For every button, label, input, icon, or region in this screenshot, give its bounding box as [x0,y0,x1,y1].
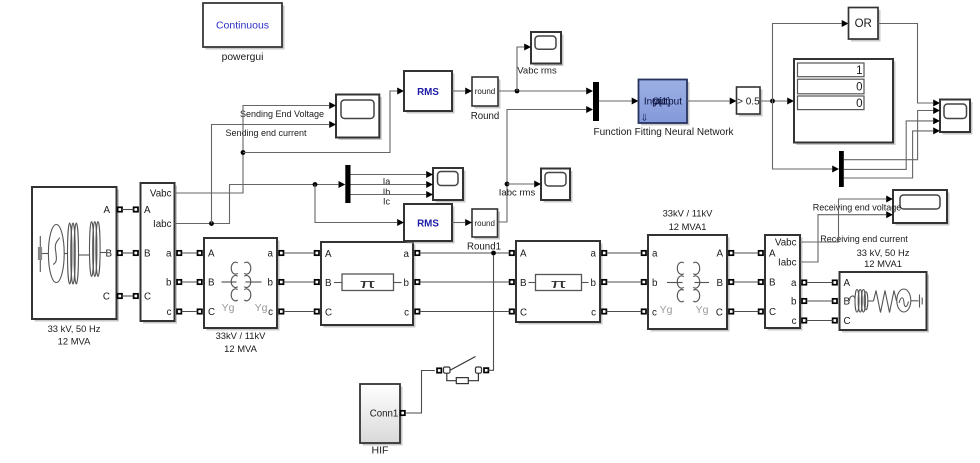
wire breaker to phase A node [488,255,493,370]
svg-text:a: a [268,249,274,260]
RMS block 2 [407,207,455,244]
pi1 inner icon [334,282,342,284]
wire VI2 Iabc to receiving scope [800,215,886,262]
svg-text:33kV / 11kV: 33kV / 11kV [663,208,714,219]
svg-text:0: 0 [856,82,862,94]
svg-text:b: b [166,278,172,289]
svg-text:b: b [268,278,274,289]
svg-text:c: c [167,307,172,318]
wire mux to neural network [599,100,632,102]
VI2 ports [759,251,763,255]
wire source B to VI1 B [122,252,134,254]
three-phase source 33 kV, 50 Hz 12 MVA [35,190,120,322]
RMS block 1 [407,74,455,114]
svg-text:A: A [325,249,332,260]
svg-text:12 MVA: 12 MVA [58,336,91,347]
scope receiving end [896,193,950,226]
svg-text:12 MVA1: 12 MVA1 [669,221,707,232]
wire source C to VI1 C [122,295,134,297]
svg-text:Iabc rms: Iabc rms [499,188,536,199]
transformer 33kV/11kV 12 MVA [207,241,280,331]
wire source A to VI1 A [122,209,134,211]
svg-text:C: C [844,316,851,327]
final scope [943,102,973,135]
svg-text:y{1}: y{1} [653,97,671,108]
wire OR to scope [878,24,933,104]
svg-text:1: 1 [856,65,862,77]
svg-text:B: B [716,278,723,289]
svg-text:a: a [591,249,597,260]
display block [797,62,896,146]
svg-text:a: a [404,249,410,260]
svg-text:B: B [208,278,215,289]
svg-text:> 0.5: > 0.5 [737,97,760,108]
pi1 ports [315,251,319,255]
transformer 33kV/11kV 12 MVA1 [651,238,730,332]
three-phase load 33 kV, 50 Hz 12 MVA1 [842,275,929,333]
wire Round1 to mux and Iabc rms scope [498,110,587,223]
wire Iabc branch to RMS2 [315,185,397,223]
svg-text:Vabc rms: Vabc rms [517,66,557,77]
node Iabc branch 1 [209,221,214,226]
demux Iabc to Ia Ib Ic [345,165,350,203]
svg-text:round: round [475,87,495,96]
svg-text:powergui: powergui [222,52,264,63]
svg-text:RMS: RMS [417,219,439,230]
source ports [118,207,122,211]
svg-text:a: a [652,249,658,260]
svg-text:Iabc: Iabc [153,219,172,230]
svg-text:a: a [791,278,797,289]
svg-text:C: C [103,292,110,303]
transformer2 ports [642,251,646,255]
svg-text:c: c [591,308,596,319]
svg-text:OR: OR [855,18,872,30]
svg-text:A: A [520,249,527,260]
load icon [850,289,923,313]
pi2 ports [510,251,514,255]
svg-text:b: b [791,297,797,308]
wire RMS1 to Round [452,90,465,92]
svg-text:B: B [325,278,332,289]
svg-text:Receiving end voltage: Receiving end voltage [813,203,902,213]
mux rms signals [593,82,599,121]
node Vabc branch [241,150,246,155]
svg-text:A: A [769,249,776,260]
svg-text:B: B [520,278,527,289]
svg-text:C: C [208,307,215,318]
scope Sending End [339,97,382,140]
wires demux to final scope [844,111,933,160]
svg-text:b: b [591,278,597,289]
svg-text:33kV / 11kV: 33kV / 11kV [216,330,267,341]
svg-text:Ic: Ic [383,197,391,207]
svg-text:RMS: RMS [417,87,439,98]
svg-text:Conn1: Conn1 [370,409,399,420]
svg-text:c: c [792,316,797,327]
three-phase V-I measurement 2 [768,238,803,331]
svg-text:round: round [474,219,494,228]
svg-text:c: c [404,308,409,319]
wire Iabc branch to scope1 input 2 [212,125,330,224]
svg-text:C: C [769,307,776,318]
svg-text:0: 0 [856,98,862,110]
demux detection signals [839,151,844,187]
wire Round to mux and Vabc rms scope [498,90,586,92]
svg-text:B: B [769,278,776,289]
wire Iabc1 to demux [175,185,339,224]
fault breaker switch [437,368,441,372]
Round block 1 [475,80,501,109]
svg-text:B: B [105,249,112,260]
scope Iabc rms [544,171,573,203]
three-phase V-I measurement 1 [143,186,177,324]
svg-text:Iabc: Iabc [778,258,797,269]
svg-text:C: C [716,308,723,319]
node HIF tap on phase A [491,251,496,256]
svg-text:b: b [404,278,410,289]
load ports [833,280,837,284]
wire compare out with branches [760,100,787,102]
svg-text:b: b [652,278,658,289]
svg-text:C: C [520,308,527,319]
svg-text:c: c [268,307,273,318]
svg-text:A: A [103,205,110,216]
source icon [38,222,106,285]
pi2 inner icon [529,282,536,284]
three-phase PI section line 1 [324,245,416,328]
svg-text:π: π [550,277,566,291]
svg-text:Round: Round [471,111,500,122]
svg-text:Continuous: Continuous [216,20,269,32]
OR logic block [851,10,881,42]
wire RMS2 to Round1 [452,222,465,224]
svg-text:Round1: Round1 [467,242,501,253]
svg-text:Yg: Yg [255,302,268,314]
scope Vabc rms [534,35,564,67]
svg-text:A: A [716,249,723,260]
svg-text:33 kV, 50 Hz: 33 kV, 50 Hz [857,247,910,258]
svg-text:Sending End Voltage: Sending End Voltage [240,109,324,119]
svg-text:12 MVA: 12 MVA [224,343,257,354]
svg-text:Vabc: Vabc [775,238,797,249]
VI1 ports [134,207,138,211]
wires demux to scope [351,174,427,176]
svg-text:C: C [144,292,151,303]
wires VI2 to load [806,282,832,284]
wire HIF to breaker [405,371,435,414]
wires VI1 to transformer1 [181,252,197,254]
scope Ia Ib Ic [436,171,466,203]
svg-text:B: B [144,249,151,260]
wire Vabc branch to RMS1 [243,91,397,153]
transformer2 coil icon [667,262,709,301]
svg-text:c: c [652,308,657,319]
wire neural network to compare [687,100,730,102]
compare block > 0.5 [739,90,763,117]
svg-text:C: C [325,308,332,319]
svg-text:Yg: Yg [222,302,235,314]
svg-text:⇓: ⇓ [640,113,648,124]
transformer1 coil icon [222,262,262,301]
wire Vabc1 to scope1 input 1 [175,106,330,194]
HIF port Conn1 [401,411,405,415]
svg-text:Sending end current: Sending end current [225,128,307,138]
svg-text:a: a [166,249,172,260]
svg-text:12 MVA1: 12 MVA1 [864,258,902,269]
svg-text:A: A [208,249,215,260]
three-phase PI section line 2 [519,244,603,325]
svg-text:A: A [144,205,151,216]
powergui block [206,6,285,50]
wires pi1 to pi2 (A row carries HIF tap) [420,252,510,254]
wires transformer2 to VI2 [733,252,758,254]
svg-text:HIF: HIF [372,445,389,457]
transformer1 ports [198,251,202,255]
Round1 block [475,212,501,240]
svg-text:33 kV, 50 Hz: 33 kV, 50 Hz [48,323,101,334]
svg-text:Ib: Ib [383,187,391,197]
wires pi2 to transformer2 [606,252,641,254]
node Iabc branch 2 [313,182,318,187]
wires transformer1 to pi1 [284,252,315,254]
svg-text:π: π [359,277,375,291]
svg-text:Vabc: Vabc [150,189,172,200]
svg-text:A: A [844,278,851,289]
svg-text:Yg: Yg [696,304,709,316]
svg-text:Yg: Yg [660,304,673,316]
wire VI2 Vabc to receiving scope [800,199,886,242]
svg-text:Function Fitting Neural Networ: Function Fitting Neural Network [593,127,734,138]
